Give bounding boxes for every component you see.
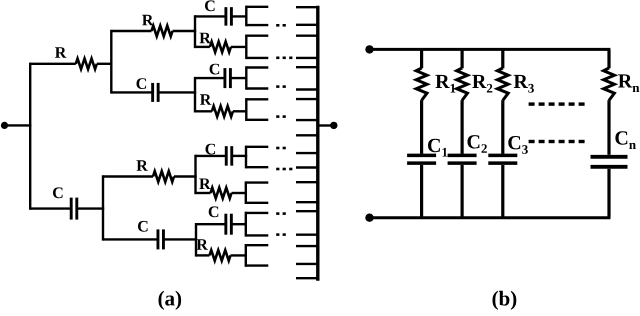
resistor R1 branch xyxy=(416,49,427,153)
wire bus stub 3 xyxy=(296,35,318,37)
wire trunk vertical (input node splits to R and C) xyxy=(29,63,31,210)
wire level-4 branch bracket 3 xyxy=(246,66,268,89)
wire bus stub 5 xyxy=(296,66,318,68)
continuation dots row 7 xyxy=(276,212,286,215)
wire bus to right terminal xyxy=(318,124,331,126)
capacitor C (level 1, bottom trunk branch) xyxy=(30,187,104,219)
wire level-3 junction 2 xyxy=(194,77,196,113)
capacitor C (level 2, upper-lower) xyxy=(111,78,196,102)
label R2 xyxy=(472,75,492,93)
capacitor C (level 2, lower) xyxy=(103,221,197,250)
label R3 xyxy=(514,75,534,93)
continuation dots row 6 xyxy=(276,168,292,171)
capacitor C2 xyxy=(448,155,477,217)
capacitor C1 xyxy=(407,155,436,217)
capacitor C (level 3, group 1) xyxy=(195,0,248,25)
resistor R (level 3, group 4) xyxy=(196,239,247,261)
wire bus stub 4 xyxy=(296,57,318,59)
continuation dots row 8 xyxy=(276,233,286,236)
wire bus stub 18 xyxy=(296,277,318,279)
node: right output terminal of network (a) xyxy=(330,122,337,129)
label Cn xyxy=(615,131,636,149)
wire bus stub 7 xyxy=(296,98,318,100)
wire level-4 branch bracket 2 xyxy=(246,35,268,60)
wire level-3 junction 3 xyxy=(194,155,196,195)
resistor R (level 3, group 1) xyxy=(195,33,248,53)
wire level-4 branch bracket 6 xyxy=(246,181,268,204)
wire level-2 junction (bottom half) xyxy=(102,175,104,240)
wire level-4 branch bracket 5 xyxy=(246,146,268,169)
wire bus stub 13 xyxy=(296,201,318,203)
resistor Rn branch xyxy=(604,49,615,154)
wire top rail xyxy=(370,48,611,51)
wire level-4 branch bracket 8 xyxy=(246,244,268,267)
wire bus stub 8 xyxy=(296,119,318,121)
caption (b) xyxy=(493,291,517,310)
caption (a) xyxy=(159,291,182,310)
label Rn xyxy=(618,74,639,92)
resistor R (level 1, top trunk branch) xyxy=(30,47,112,69)
wire level-4 branch bracket 1 xyxy=(246,6,268,27)
continuation dots row 5 xyxy=(276,147,286,150)
label C2 xyxy=(468,135,487,153)
wire level-4 branch bracket 4 xyxy=(246,98,268,121)
wire bus stub 16 xyxy=(296,245,318,247)
wire bus stub 9 xyxy=(296,134,318,136)
capacitor C (level 3, group 2) xyxy=(195,64,248,88)
continuation dots row 3 xyxy=(276,85,286,88)
wire bus stub 12 xyxy=(296,181,318,183)
node: top input terminal of network (b) xyxy=(365,45,373,53)
label C3 xyxy=(508,136,528,154)
wire bus stub 15 xyxy=(296,233,318,235)
capacitor C (level 3, group 3) xyxy=(196,144,248,166)
wire bus stub 14 xyxy=(296,210,318,212)
continuation dots row 4 xyxy=(276,115,286,118)
wire bus stub 11 xyxy=(296,166,318,168)
resistor R (level 3, group 3) xyxy=(196,179,248,199)
wire level-3 junction 4 xyxy=(195,223,197,257)
wire bus stub 2 xyxy=(296,24,318,26)
resistor R (level 2, lower-upper) xyxy=(103,160,197,182)
wire bus stub 10 xyxy=(296,152,318,154)
resistor R (level 3, group 2) xyxy=(195,94,248,116)
continuation dashes row 1 (network b) xyxy=(529,102,585,105)
wire level-2 junction (top half) xyxy=(110,30,112,94)
node: bottom input terminal of network (b) xyxy=(365,214,373,222)
label C1 xyxy=(428,139,447,157)
wire bus stub 6 xyxy=(296,88,318,90)
label R1 xyxy=(435,75,455,93)
wire output bus vertical (nth stage) xyxy=(316,6,319,281)
continuation dots row 1 xyxy=(276,24,286,27)
capacitor C3 xyxy=(488,155,517,217)
continuation dots row 2 xyxy=(276,57,292,60)
resistor R3 branch xyxy=(497,49,508,153)
wire bus stub 17 xyxy=(296,263,318,265)
resistor R (level 2, upper) xyxy=(111,15,196,37)
capacitor Cn xyxy=(591,157,628,218)
wire from left terminal to trunk xyxy=(5,124,32,126)
capacitor C (level 3, group 4) xyxy=(196,206,247,234)
wire bus stub 1 xyxy=(296,6,318,8)
resistor R2 branch xyxy=(457,49,468,153)
continuation dashes row 2 (network b) xyxy=(529,140,585,143)
wire level-4 branch bracket 7 xyxy=(246,212,268,237)
wire level-3 junction 1 xyxy=(194,15,196,48)
node: left input terminal of network (a) xyxy=(1,122,8,129)
wire bottom rail xyxy=(370,216,611,219)
